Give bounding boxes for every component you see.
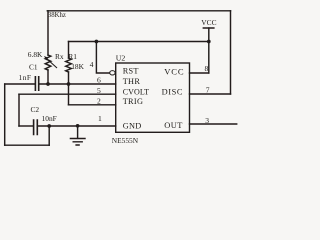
wire RST/VCC line — [69, 41, 209, 43]
wire ground riser — [48, 126, 50, 145]
wire Rx bottom — [47, 70, 49, 84]
svg-text:1: 1 — [98, 114, 102, 123]
node junction Rx/C1 — [46, 82, 50, 86]
wire R1 bottom — [68, 72, 70, 84]
node junction R1/TRIG — [67, 82, 71, 86]
wire TRIG pin 2 — [69, 104, 116, 106]
node junction C2/ground riser — [47, 124, 51, 128]
svg-text:2: 2 — [97, 96, 101, 105]
wire bottom ground run — [5, 144, 50, 146]
svg-text:VCC: VCC — [164, 66, 184, 76]
wire DISC pin 7 — [190, 93, 231, 95]
svg-text:3: 3 — [205, 116, 209, 125]
svg-text:1nF: 1nF — [19, 73, 32, 82]
svg-text:8: 8 — [205, 64, 209, 73]
node junction RST — [95, 40, 99, 44]
svg-text:NE555N: NE555N — [112, 136, 139, 145]
wire VCC pin 8 — [190, 72, 209, 74]
svg-text:RST: RST — [123, 67, 139, 76]
wire right riser to DISC — [230, 11, 232, 94]
svg-text:7: 7 — [206, 85, 210, 94]
svg-text:4: 4 — [90, 60, 94, 69]
svg-text:C1: C1 — [29, 63, 38, 72]
ground symbol — [70, 139, 86, 146]
capacitor C1 — [35, 77, 38, 90]
svg-text:THR: THR — [123, 77, 141, 86]
IC U2 NE555N body — [116, 63, 190, 132]
node junction ground stub — [76, 124, 80, 128]
svg-text:18K: 18K — [71, 62, 84, 71]
wire VCC stem — [208, 28, 210, 73]
wire Rx top drop — [47, 11, 49, 55]
RST inverting bubble — [110, 71, 115, 75]
wire top rail — [47, 10, 230, 12]
resistor R1 — [66, 58, 72, 72]
svg-text:6: 6 — [97, 75, 101, 84]
VCC power bar — [203, 27, 215, 29]
svg-text:TRIG: TRIG — [123, 97, 144, 106]
potentiometer arrow — [47, 59, 58, 69]
svg-text:6.8K: 6.8K — [28, 50, 43, 59]
wire TRIG riser — [68, 84, 70, 105]
wire RST drop pin 4 — [96, 42, 109, 74]
wire R1 top — [68, 42, 70, 59]
svg-text:C2: C2 — [31, 105, 40, 114]
wire CVOLT drop — [18, 94, 20, 126]
wire CVOLT pin 5 — [19, 93, 116, 95]
svg-text:U2: U2 — [116, 53, 126, 62]
wire THR node line — [5, 83, 35, 85]
svg-text:OUT: OUT — [164, 121, 182, 130]
capacitor C2 — [34, 120, 38, 135]
node junction VCC line — [207, 40, 211, 44]
svg-text:38Khz: 38Khz — [48, 12, 66, 19]
svg-text:10nF: 10nF — [42, 114, 57, 123]
wire left ground rail — [4, 84, 6, 145]
wire C2 to GND pin — [19, 125, 33, 127]
resistor Rx — [45, 55, 51, 70]
svg-text:GND: GND — [123, 121, 142, 130]
wire OUT pin 3 — [190, 123, 237, 125]
svg-text:VCC: VCC — [201, 18, 216, 27]
svg-text:R1: R1 — [68, 52, 77, 61]
svg-text:5: 5 — [97, 86, 101, 95]
svg-text:DISC: DISC — [162, 87, 183, 96]
wire GND stub to ground — [77, 126, 79, 139]
svg-text:Rx: Rx — [55, 52, 64, 61]
svg-text:CVOLT: CVOLT — [123, 87, 149, 96]
